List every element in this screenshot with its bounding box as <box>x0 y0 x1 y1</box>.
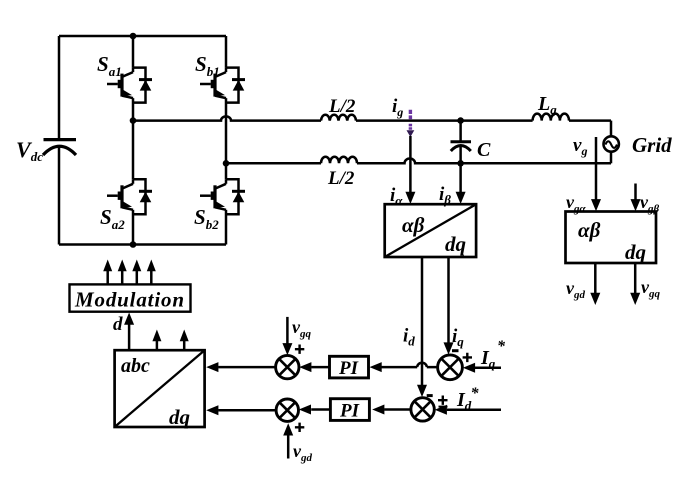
arrow vgq output tip <box>630 293 640 305</box>
wire dc bus top rail <box>59 35 226 38</box>
junction cap top node <box>457 117 464 124</box>
label plus at left q summing node <box>295 345 304 354</box>
arrow gate 1 tip <box>103 260 112 272</box>
arrow into left q summing node <box>299 362 311 372</box>
svg-text:Grid: Grid <box>632 133 672 157</box>
wire gate drive arrow 4 <box>150 271 153 284</box>
arrow gate 4 tip <box>147 260 156 272</box>
block Modulation <box>70 284 191 311</box>
block alpha-beta to dq current transform U1 <box>385 204 476 257</box>
svg-text:dq: dq <box>169 405 190 429</box>
svg-text:Modulation: Modulation <box>74 288 184 312</box>
arrow d into Modulation <box>124 313 134 325</box>
label plus-minus at d summing node <box>438 396 448 405</box>
wire phase-a rail with hop over leg b <box>133 116 321 120</box>
wire id from block to d summing node <box>421 257 424 385</box>
wire dc bus left rail upper <box>58 36 61 139</box>
block dq to abc inverse transform U3 <box>115 350 205 427</box>
junction top rail / leg a <box>130 33 137 40</box>
svg-text:L/2: L/2 <box>327 168 355 189</box>
arrow iq into q summing node <box>444 342 454 354</box>
summing junction q-axis decouple (left) <box>276 355 299 378</box>
svg-text:*: * <box>471 385 480 402</box>
wire vgq feedforward arrow <box>286 317 289 344</box>
wire stub arrow c phase <box>183 341 186 350</box>
arrow into left d summing node <box>299 405 311 415</box>
wire q summing node to PI with hop over id <box>382 366 438 369</box>
wire d summing node to PI <box>384 408 411 411</box>
junction cap bottom node <box>457 160 464 167</box>
wire ib tap from cap bottom node <box>459 163 462 192</box>
inductor L/2 bottom <box>321 157 357 164</box>
arrow Id* into d summing node <box>435 405 447 415</box>
inductor Lg <box>533 114 569 121</box>
wire leg a lower <box>132 210 135 245</box>
wire phase-a rail cap node to Lg <box>461 119 533 122</box>
capacitor C filter <box>451 121 472 164</box>
summing junction d-axis decouple (left) <box>276 399 298 421</box>
arrow into d PI controller <box>372 405 384 415</box>
arrow d into abc-dq block <box>206 405 218 415</box>
wire gate drive arrow 1 <box>106 271 109 284</box>
svg-text:PI: PI <box>338 358 359 379</box>
label plus at left d summing node <box>295 423 304 432</box>
wire Iq* reference <box>475 367 501 370</box>
transistor Sb1 (IGBT with antiparallel diode) <box>200 68 245 103</box>
wire Lg to corner <box>569 119 611 122</box>
arrow vgq into left q summing node <box>282 343 292 355</box>
wire leg b lower <box>225 210 228 245</box>
svg-text:C: C <box>477 139 491 161</box>
transistor Sb2 (IGBT with antiparallel diode) <box>200 179 245 214</box>
wire left d summing node to abc-dq block <box>218 409 276 412</box>
arrow vgd output tip <box>590 293 600 305</box>
wire hop arc over id line <box>417 363 427 367</box>
wire d PI to left summing node <box>311 408 330 411</box>
wire vg tap down to right ab-dq block <box>595 137 598 200</box>
junction leg b midpoint node <box>223 160 230 167</box>
arrow vgd into left d summing node <box>283 423 293 435</box>
arrow ia into ab-dq block <box>405 192 415 204</box>
svg-text:d: d <box>113 314 123 335</box>
junction bottom rail / leg a <box>130 241 137 248</box>
svg-text:PI: PI <box>339 401 360 422</box>
wire phase-b rail cap node to grid leg <box>461 162 611 165</box>
arrow vga into right block <box>591 199 601 211</box>
wire stub arrow b phase <box>156 341 159 350</box>
arrow stub c tip <box>180 330 189 342</box>
wire ia tap from phase-a rail <box>409 136 412 192</box>
svg-text:dq: dq <box>445 232 466 256</box>
block PI controller q <box>330 356 369 378</box>
wire vgq output <box>634 263 637 293</box>
summing junction d-axis error (right) <box>411 398 434 421</box>
wire d duty output to Modulation <box>128 325 131 351</box>
svg-text:L/2: L/2 <box>328 96 356 117</box>
wire grid branch down to source <box>610 121 613 137</box>
transistor Sa1 (IGBT with antiparallel diode) <box>107 68 152 103</box>
wire dc bus left rail lower <box>58 147 61 245</box>
wire Id* reference <box>447 408 501 411</box>
transistor Sa2 (IGBT with antiparallel diode) <box>107 179 152 214</box>
arrow stub b tip <box>152 330 161 342</box>
inductor L/2 top <box>321 115 356 121</box>
junction leg a midpoint node <box>130 117 137 124</box>
arrow q into abc-dq block <box>206 362 218 372</box>
svg-text:αβ: αβ <box>402 213 425 237</box>
arrow vgb into right block <box>631 199 641 211</box>
label minus at d summing node <box>427 394 433 397</box>
arrow gate 3 tip <box>132 260 141 272</box>
arrow into q PI controller <box>370 362 382 372</box>
label minus at q summing node <box>452 349 459 352</box>
arrow id into d summing node <box>417 385 427 397</box>
wire phase-b rail with hop over ia tap <box>357 159 461 164</box>
svg-text:αβ: αβ <box>578 218 601 242</box>
arrow ib into ab-dq block <box>456 192 466 204</box>
summing junction q-axis error (right) <box>438 355 463 380</box>
wire vgb stub arrow <box>634 184 637 200</box>
capacitor Vdc dc-link <box>43 140 76 155</box>
wire phase-a rail to cap node <box>356 119 461 122</box>
wire vgd feedforward arrow <box>287 436 290 459</box>
ac source grid <box>604 136 619 151</box>
wire leg a middle <box>132 98 135 179</box>
arrow Iq* into q summing node <box>463 363 475 373</box>
block alpha-beta to dq voltage transform U2 <box>566 212 657 264</box>
wire vgd output <box>594 263 597 293</box>
wire dc bus bottom rail <box>59 243 226 246</box>
block PI controller d <box>330 399 369 421</box>
svg-text:dq: dq <box>625 240 646 264</box>
wire left q summing node to abc-dq block <box>218 366 275 369</box>
wire iq from block to q summing node <box>447 257 450 343</box>
wire gate drive arrow 2 <box>121 271 124 284</box>
wire leg b upper <box>225 36 228 68</box>
svg-text:*: * <box>497 338 506 355</box>
svg-text:abc: abc <box>121 355 150 377</box>
probe ig purple dashed arrow <box>407 110 415 137</box>
wire phase-b rail from leg b <box>226 162 321 165</box>
wire leg b middle <box>225 98 228 179</box>
wire gate drive arrow 3 <box>136 271 139 284</box>
wire q PI to left summing node <box>311 366 329 369</box>
arrow gate 2 tip <box>118 260 127 272</box>
wire leg a upper <box>132 36 135 68</box>
label plus at q summing node <box>463 353 472 362</box>
wire source to phase-b rail <box>610 152 613 164</box>
